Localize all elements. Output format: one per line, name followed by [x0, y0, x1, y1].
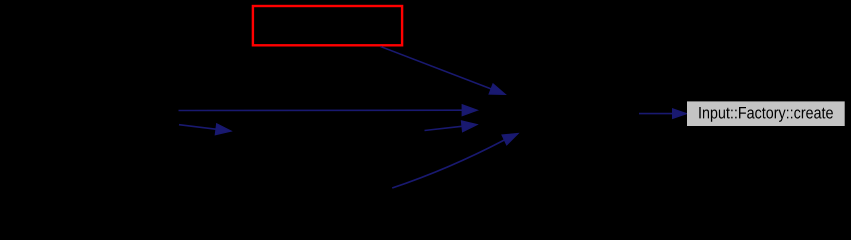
edge E5 arrowhead [502, 133, 518, 145]
edge E3 arrowhead [215, 124, 231, 135]
edge E6 wire (hidden node to Input::Factory::create) [639, 113, 673, 115]
edge E1 arrowhead [489, 84, 506, 95]
edge E1 wire (red box to hidden node) [381, 47, 492, 89]
node N2 Input::Factory::create (gray box) [687, 101, 845, 126]
edge E4 wire (mid hidden node to hidden node) [425, 126, 462, 130]
edge E3 wire (left node to mid hidden node, short) [179, 125, 216, 130]
edge E6 arrowhead [673, 109, 687, 119]
node N1 (truncated caller, red box) [253, 6, 402, 45]
edge E2 arrowhead [462, 105, 478, 116]
edge E5 wire (bottom node to hidden node, diagonal) [392, 140, 504, 188]
edge E2 wire (left node to hidden node, long horizontal) [179, 109, 463, 111]
edge E4 arrowhead [461, 121, 477, 132]
